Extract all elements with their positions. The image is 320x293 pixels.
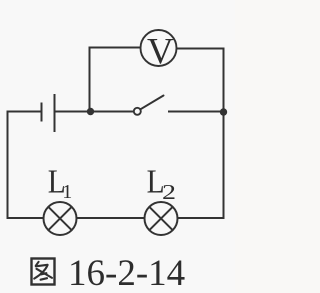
lamp L1 [44,202,77,235]
switch S1 pivot [134,108,141,115]
svg-text:2: 2 [162,180,176,204]
wire right rail [223,49,225,219]
svg-text:V: V [147,32,174,73]
lamp L2 [145,202,178,235]
wire battery to node A [56,111,91,113]
wire voltmeter branch left vertical [89,48,91,112]
svg-text:1: 1 [62,181,72,203]
voltmeter V1 circle [141,30,177,66]
battery cell short plate (negative) [41,104,43,121]
wire bottom left [8,217,44,219]
wire voltmeter branch top left horizontal [90,47,141,49]
battery cell long plate (positive) [54,95,56,131]
caption hanzi tu (图) drawn as strokes [32,259,55,285]
wire switch to node B [169,111,224,113]
node A junction dot [87,108,94,115]
node B junction dot [220,108,227,115]
wire battery left horizontal [8,111,41,113]
wire node A to switch pivot [91,111,134,113]
svg-text:16-2-14: 16-2-14 [68,253,185,293]
wire left rail [7,112,9,219]
switch S1 blade [140,96,163,110]
wire between lamps [77,217,145,219]
wire voltmeter branch top right horizontal [177,48,224,50]
wire bottom right [178,217,224,219]
